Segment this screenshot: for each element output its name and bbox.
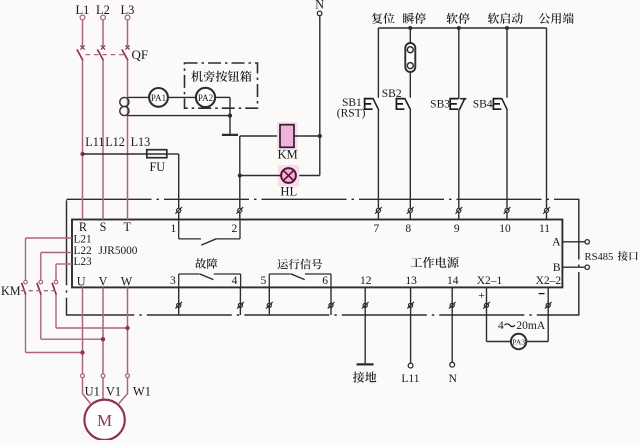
- node terminal 10: [499, 207, 511, 235]
- node QF label: [132, 47, 149, 62]
- wire HL to terminal-2 line: [240, 175, 281, 177]
- svg-text:1: 1: [170, 223, 176, 235]
- wire V1 lead: [102, 378, 104, 400]
- node label RS485 接口: [585, 251, 638, 263]
- wire SB2 to terminal 8: [409, 110, 411, 220]
- wire output terminal stub: [239, 287, 241, 315]
- diode HL indicator lamp: [278, 165, 299, 199]
- node terminal X2-2: [536, 275, 562, 309]
- node terminal R: [79, 220, 88, 234]
- node terminal 2: [232, 207, 244, 235]
- wire L3 down to QF: [127, 20, 129, 46]
- wire PA2 right then down: [215, 97, 230, 133]
- wire X2-1 down to PA3: [487, 287, 511, 341]
- wire output terminal stub: [268, 287, 270, 315]
- wire 瞬停 line: [409, 28, 411, 43]
- wire KM contact to motor phase: [41, 295, 103, 339]
- svg-text:(RST): (RST): [337, 108, 366, 120]
- node label 工作电源: [411, 257, 459, 268]
- svg-text:M: M: [97, 411, 112, 430]
- svg-text:A: A: [552, 235, 561, 249]
- node junction bypass/phase: [101, 337, 105, 341]
- switch fault contact 故障 between 3 and 4: [179, 258, 241, 287]
- node L13: [130, 135, 150, 149]
- capacitor KM contactor coil: [277, 122, 298, 162]
- node motor terminal circle: [101, 374, 105, 378]
- node L1 supply terminal: [76, 3, 90, 20]
- node terminal A: [552, 235, 589, 249]
- wire terminal 14 to N: [450, 287, 455, 367]
- transformer CT on L3 (two loops): [120, 97, 129, 115]
- svg-text:FU: FU: [150, 160, 166, 174]
- node L11 source label: [401, 373, 419, 385]
- node terminal 8: [405, 207, 413, 235]
- svg-text:3: 3: [170, 275, 176, 287]
- svg-text:X2–1: X2–1: [477, 275, 503, 287]
- svg-text:T: T: [123, 220, 131, 234]
- node emergency-stop plug oval on SB2 line: [405, 43, 415, 72]
- svg-text:L12: L12: [105, 135, 125, 149]
- svg-text:9: 9: [454, 223, 460, 235]
- wire CT return to junction: [128, 115, 231, 117]
- svg-text:8: 8: [405, 223, 411, 235]
- svg-text:20mA: 20mA: [516, 320, 545, 332]
- node motor terminal circle: [81, 374, 85, 378]
- wire KM branch left lead: [240, 135, 280, 137]
- svg-text:R: R: [79, 220, 88, 234]
- svg-text:PA3: PA3: [512, 337, 525, 346]
- wire SB1 to terminal 7: [377, 110, 379, 220]
- node terminal 6: [322, 275, 334, 309]
- transistor Q1 QF breaker pole 1: [77, 45, 85, 60]
- switch run-signal contact 运行信号 between 5 and 6: [269, 259, 331, 288]
- node junction L1/FU tap: [80, 152, 84, 156]
- svg-text:13: 13: [405, 275, 417, 287]
- wire L2 down to QF: [102, 20, 104, 46]
- node junction bus: [408, 26, 412, 30]
- svg-text:B: B: [553, 260, 561, 274]
- node junction KM/N: [318, 134, 322, 138]
- wire KM contact linkage (dashed): [21, 290, 57, 292]
- wire PA3 to X2-2: [526, 287, 548, 341]
- wire SB4 to terminal 10: [506, 110, 508, 220]
- svg-text:L21: L21: [74, 234, 92, 246]
- wire output terminal stub: [330, 287, 332, 315]
- switch SB2 pushbutton: [382, 88, 411, 110]
- svg-text:QF: QF: [132, 47, 149, 62]
- node terminal 12: [360, 275, 372, 309]
- node terminal V: [99, 275, 108, 289]
- svg-text:JJR5000: JJR5000: [99, 245, 138, 257]
- wire oval to SB2: [409, 73, 411, 98]
- op-amp PA2 ammeter: [196, 88, 215, 107]
- node polarity -: [539, 293, 545, 295]
- svg-text:2: 2: [232, 223, 238, 235]
- svg-text:12: 12: [360, 275, 372, 287]
- node terminal 13: [405, 275, 417, 309]
- node L23: [73, 256, 93, 268]
- svg-text:U1: U1: [85, 385, 100, 399]
- switch internal run contact between 1 and 2: [179, 221, 240, 246]
- wire terminal V to motor V1: [102, 287, 104, 374]
- svg-text:L11: L11: [401, 373, 419, 385]
- node button box enclosure 机旁按钮箱: [185, 63, 258, 108]
- node terminal 9: [454, 207, 462, 235]
- node terminal S: [100, 220, 107, 234]
- wire L2x to KM contact: [26, 238, 73, 280]
- node JJR5000 type label: [99, 245, 138, 257]
- wire L3 phase QF to terminal T: [127, 60, 129, 220]
- wire terminal 2 up to KM branch: [239, 136, 241, 220]
- ground chassis bar under ammeter circuit: [222, 134, 238, 136]
- node label 公用端: [539, 13, 574, 24]
- wire L1 down to QF: [82, 20, 84, 46]
- svg-text:5: 5: [261, 275, 267, 287]
- node terminal 11: [539, 207, 550, 235]
- node junction CT/PA2: [228, 114, 232, 118]
- svg-text:KM: KM: [1, 284, 21, 298]
- svg-text:SB3: SB3: [430, 99, 450, 111]
- wire FU to terminal 1: [167, 154, 179, 220]
- wire L1 phase QF to terminal R: [82, 60, 84, 220]
- wire 公用端 to terminal 11: [546, 28, 548, 220]
- wire L2x to KM contact: [41, 253, 72, 281]
- svg-text:L2: L2: [96, 3, 110, 17]
- svg-text:L11: L11: [85, 135, 104, 149]
- node terminal 7: [374, 207, 382, 235]
- ground earth symbol 接地: [353, 364, 376, 382]
- svg-text:PA2: PA2: [198, 93, 213, 103]
- wire terminal 13 to L11: [408, 287, 413, 368]
- wire N line down: [319, 16, 321, 136]
- switch KM bypass contact: [52, 280, 58, 294]
- svg-text:HL: HL: [280, 185, 297, 199]
- node terminal 1: [170, 207, 182, 235]
- svg-text:10: 10: [499, 223, 511, 235]
- switch SB4 pushbutton: [473, 98, 508, 111]
- resistor FU fuse: [147, 150, 167, 174]
- switch KM bypass contact: [22, 280, 28, 294]
- svg-text:4: 4: [232, 275, 238, 287]
- wire W1 lead: [119, 378, 128, 404]
- wire KM contact to motor phase: [56, 295, 128, 328]
- node label 4~20mA: [498, 320, 546, 332]
- wire L2x to KM contact: [56, 264, 72, 280]
- node label 软启动: [488, 13, 523, 24]
- wire 复位 line: [377, 28, 379, 98]
- svg-text:U: U: [77, 275, 86, 289]
- wire KM contact to motor phase: [26, 295, 83, 353]
- node KM label (bypass): [1, 284, 21, 298]
- node polarity +: [478, 288, 485, 302]
- svg-text:RS485: RS485: [585, 252, 614, 263]
- node L12: [105, 135, 125, 149]
- svg-text:W: W: [121, 275, 133, 289]
- node terminal T: [123, 220, 131, 234]
- svg-text:SB2: SB2: [382, 88, 402, 100]
- transistor Q2 QF breaker pole 2: [97, 45, 105, 60]
- svg-text:7: 7: [374, 223, 380, 235]
- wire L1 tap to FU: [83, 153, 147, 155]
- svg-text:SB4: SB4: [473, 99, 493, 111]
- svg-text:4: 4: [498, 320, 504, 332]
- node terminal 5: [261, 275, 273, 309]
- svg-text:+: +: [478, 288, 485, 302]
- svg-text:PA1: PA1: [151, 93, 166, 103]
- switch SB1 (RST) pushbutton: [337, 97, 379, 119]
- svg-text:N: N: [315, 0, 324, 11]
- node L21: [73, 234, 93, 246]
- wire SB3 to terminal 9: [458, 110, 460, 220]
- svg-text:L13: L13: [131, 135, 151, 149]
- node L3 supply terminal: [121, 3, 135, 20]
- node junction HL branch: [238, 173, 242, 177]
- node L2 supply terminal: [96, 3, 110, 20]
- node U1: [85, 385, 100, 399]
- node terminal 4: [232, 275, 244, 309]
- svg-text:L1: L1: [76, 3, 90, 17]
- node enclosure boundary (dash-dot cabinet box): [67, 199, 579, 315]
- svg-text:KM: KM: [277, 148, 297, 162]
- node junction bus: [505, 26, 509, 30]
- node junction bypass/phase: [125, 326, 129, 330]
- wire PA1 to PA2: [168, 96, 196, 98]
- svg-text:X2–2: X2–2: [536, 275, 562, 287]
- wire terminal W to motor W1: [127, 287, 129, 374]
- node terminal U: [77, 275, 86, 289]
- svg-text:6: 6: [322, 275, 328, 287]
- wire terminal 12 to earth: [364, 287, 366, 363]
- node W1: [133, 385, 151, 399]
- node motor terminal circle: [126, 374, 130, 378]
- node label 软停: [446, 13, 469, 24]
- node L11: [85, 135, 104, 149]
- node terminal 14: [447, 275, 459, 309]
- wire control bus (top): [378, 27, 546, 29]
- wire U1 lead: [83, 378, 91, 404]
- switch SB3 pushbutton (NC): [430, 98, 466, 110]
- wire KM coil to N line: [294, 135, 320, 137]
- svg-text:V: V: [99, 275, 108, 289]
- switch KM bypass contact: [37, 280, 43, 294]
- wire 软停 line: [458, 28, 460, 99]
- node label 瞬停: [403, 13, 426, 24]
- svg-text:S: S: [100, 220, 107, 234]
- wire CT to PA1: [128, 96, 150, 98]
- node junction bypass/phase: [80, 350, 84, 354]
- wire terminal U to motor U1: [82, 287, 84, 374]
- node L22: [73, 245, 93, 257]
- op-amp U1 JJR5000 soft-starter box: [72, 220, 562, 288]
- wire N line KM to HL: [296, 136, 320, 176]
- node terminal X2-1: [477, 275, 503, 309]
- node terminal B: [553, 260, 590, 274]
- op-amp PA3 output meter: [511, 334, 526, 349]
- svg-text:N: N: [449, 373, 458, 385]
- node V1: [106, 385, 121, 399]
- svg-text:14: 14: [447, 275, 459, 287]
- svg-text:W1: W1: [133, 385, 151, 399]
- wire L2 phase QF to terminal S: [102, 60, 104, 220]
- transistor Q3 QF breaker pole 3: [122, 45, 130, 60]
- op-amp PA1 ammeter: [149, 88, 168, 107]
- wire QF linkage (dashed): [86, 54, 125, 56]
- svg-text:L3: L3: [121, 3, 135, 17]
- wire output terminal stub: [178, 287, 180, 315]
- node label 复位: [372, 13, 395, 24]
- node junction bus: [457, 26, 461, 30]
- node terminal W: [121, 275, 133, 289]
- svg-text:V1: V1: [106, 385, 121, 399]
- transistor M motor: [84, 400, 124, 440]
- svg-text:11: 11: [539, 223, 550, 235]
- wire 软启动 line: [506, 28, 508, 98]
- node N source label (bottom): [449, 373, 458, 385]
- svg-text:L23: L23: [74, 256, 93, 268]
- node terminal 3: [170, 275, 182, 309]
- node N supply terminal (top): [315, 0, 324, 16]
